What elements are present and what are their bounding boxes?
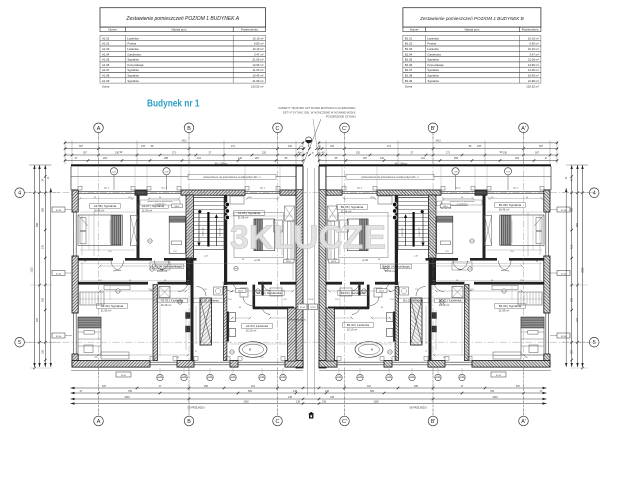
svg-text:B1.01: B1.01 [405,36,413,40]
svg-text:275: 275 [569,245,572,250]
svg-text:120: 120 [330,145,335,148]
svg-text:Komunikacja: Komunikacja [427,63,443,67]
svg-text:11.00 m²: 11.00 m² [142,208,153,212]
svg-text:271: 271 [446,152,451,155]
svg-text:A1.03 | Łazienka: A1.03 | Łazienka [246,324,269,328]
svg-text:10.19 m²: 10.19 m² [252,36,263,40]
svg-text:1.09: 1.09 [112,171,116,173]
svg-text:16.45 m²: 16.45 m² [499,207,510,211]
svg-text:A: A [97,419,101,425]
svg-text:S2.06: S2.06 [561,336,567,338]
svg-text:Np= 0: Np= 0 [357,188,362,190]
svg-text:250: 250 [41,297,44,302]
svg-text:-2.00: -2.00 [208,376,212,378]
svg-text:-2.00: -2.00 [387,376,391,378]
svg-text:958: 958 [575,223,578,228]
svg-text:307: 307 [539,145,544,148]
svg-text:52.01: 52.01 [308,299,314,301]
svg-text:10.10 m²: 10.10 m² [252,47,263,51]
svg-text:Łazienka: Łazienka [127,36,139,40]
svg-text:280: 280 [569,208,572,213]
svg-text:529: 529 [370,390,375,393]
svg-text:Numer: Numer [410,28,418,32]
svg-text:na pobyt ludzi: na pobyt ludzi [457,202,468,205]
svg-text:1332: 1332 [31,267,34,273]
svg-text:21.99 m²: 21.99 m² [101,308,112,312]
svg-text:Sypialnia: Sypialnia [427,58,439,62]
svg-text:255: 255 [454,157,459,160]
svg-text:A': A' [521,419,526,425]
svg-text:120.52 m²: 120.52 m² [526,84,539,88]
svg-text:Łazienka: Łazienka [427,47,439,51]
svg-text:na pobyt ludzi: na pobyt ludzi [155,202,166,205]
svg-text:C: C [276,419,280,425]
svg-text:Nazwa pom.: Nazwa pom. [172,28,188,32]
svg-text:-2.00: -2.00 [182,376,186,378]
svg-text:A1.07: A1.07 [102,68,110,72]
svg-text:10.19 m²: 10.19 m² [161,303,172,307]
svg-text:B1.08: B1.08 [405,74,413,78]
svg-text:307: 307 [535,152,540,155]
svg-text:POSZERZENIE GZYMSU: POSZERZENIE GZYMSU [326,115,356,119]
svg-text:S2.06: S2.06 [56,210,62,212]
svg-text:Sypialnia: Sypialnia [127,58,139,62]
svg-text:A': A' [521,126,526,132]
svg-text:GABARYT TRUSTWO GPT 84 PER EKS: GABARYT TRUSTWO GPT 84 PER EKSTRAKCJI AL… [278,106,356,110]
svg-text:4: 4 [18,191,21,197]
svg-text:10.10 m²: 10.10 m² [528,47,539,51]
svg-text:271: 271 [231,145,236,148]
svg-text:10.10 m²: 10.10 m² [347,327,358,331]
svg-text:-2.00: -2.00 [460,376,464,378]
svg-text:B1.06 | Komunikacja: B1.06 | Komunikacja [382,265,410,269]
svg-text:1.09: 1.09 [454,171,458,173]
svg-text:275: 275 [41,244,44,249]
svg-text:Nazwa pom.: Nazwa pom. [465,28,481,32]
svg-text:S2.05: S2.05 [310,307,316,309]
svg-text:11.00 m²: 11.00 m² [253,68,264,72]
svg-text:263: 263 [515,157,520,160]
svg-text:C': C' [342,126,347,132]
svg-text:958: 958 [36,222,39,227]
svg-text:Łazienka: Łazienka [127,47,139,51]
svg-text:A1.04: A1.04 [102,52,110,56]
svg-text:pomieszczenie nie przeznaczone: pomieszczenie nie przeznaczone na stały … [361,176,419,179]
svg-text:138: 138 [296,401,301,404]
svg-text:Sypialnia: Sypialnia [427,74,439,78]
svg-text:Pralnia: Pralnia [127,42,136,46]
svg-text:220: 220 [356,152,361,155]
svg-text:S2.01: S2.01 [121,375,127,377]
svg-text:271: 271 [387,145,392,148]
svg-text:Powierzchnia: Powierzchnia [522,28,539,32]
svg-text:11.00 m²: 11.00 m² [528,68,539,72]
svg-text:1332: 1332 [580,267,583,273]
svg-text:3KLUCZE: 3KLUCZE [230,219,386,256]
svg-text:246.0: 246.0 [238,291,244,293]
svg-text:A1.08: A1.08 [102,74,110,78]
svg-text:8x25=200: 8x25=200 [220,227,222,237]
svg-text:21.06 m²: 21.06 m² [252,58,263,62]
svg-text:Numer: Numer [108,28,116,32]
svg-text:1342: 1342 [124,396,130,399]
svg-text:B1.09: B1.09 [405,79,413,83]
svg-text:637: 637 [516,385,521,388]
svg-text:3.47 m²: 3.47 m² [529,52,539,56]
svg-text:6.83 m²: 6.83 m² [254,42,264,46]
svg-text:Sypialnia: Sypialnia [427,79,439,83]
svg-text:16.45 m²: 16.45 m² [94,208,105,212]
svg-text:14.66 m²: 14.66 m² [385,269,396,273]
svg-text:Suma: Suma [102,84,110,88]
svg-text:14.66 m²: 14.66 m² [252,63,263,67]
svg-text:B1.01 | Łazienka: B1.01 | Łazienka [439,299,462,303]
svg-text:374: 374 [36,317,39,322]
svg-text:Powierzchnia: Powierzchnia [241,28,258,32]
svg-text:278: 278 [141,145,146,148]
svg-text:Garderoba: Garderoba [427,52,441,56]
svg-text:A1.01: A1.01 [102,36,110,40]
svg-text:138: 138 [325,390,330,393]
svg-text:295: 295 [204,385,209,388]
svg-text:280: 280 [41,207,44,212]
svg-text:DETY P SYTUAC OBL. WYKONCZENIE: DETY P SYTUAC OBL. WYKONCZENIE WYKONANE … [283,110,357,114]
svg-text:138: 138 [330,396,335,399]
svg-text:246.0: 246.0 [379,291,385,293]
svg-text:263: 263 [103,157,108,160]
svg-text:B1.05: B1.05 [405,58,413,62]
svg-text:Komunikacja: Komunikacja [127,63,143,67]
svg-text:Zestawienie pomieszczeń POZIOM: Zestawienie pomieszczeń POZIOM 1 BUDYNEK… [125,16,239,22]
svg-text:Np= 0: Np= 0 [161,188,166,190]
svg-text:S2.06: S2.06 [561,273,567,275]
svg-text:246.0: 246.0 [331,261,337,263]
svg-text:21.99 m²: 21.99 m² [499,308,510,312]
svg-text:180: 180 [569,350,572,355]
svg-text:120: 120 [380,157,385,160]
svg-text:1412: 1412 [435,140,441,143]
svg-text:GÓRA PRZEJAZDU: GÓRA PRZEJAZDU [288,319,307,322]
svg-text:10.19 m²: 10.19 m² [528,36,539,40]
svg-text:14.66 m²: 14.66 m² [157,269,168,273]
svg-text:1.09: 1.09 [506,171,510,173]
svg-text:A1.09: A1.09 [102,79,110,83]
svg-text:-2.00: -2.00 [281,376,285,378]
svg-text:529: 529 [248,390,253,393]
svg-text:-2.00: -2.00 [337,376,341,378]
svg-text:295: 295 [414,385,419,388]
svg-text:1412: 1412 [181,140,187,143]
svg-text:C': C' [342,419,347,425]
svg-text:5: 5 [18,340,21,346]
svg-text:A: A [97,126,101,132]
svg-text:A1.04 | Garderoba: A1.04 | Garderoba [257,291,282,295]
svg-text:B1.02: B1.02 [405,42,413,46]
svg-text:110: 110 [421,157,425,160]
svg-text:+2.42: +2.42 [254,260,261,262]
svg-text:230: 230 [503,152,508,155]
svg-text:B': B' [431,419,436,425]
svg-text:S2.01: S2.01 [496,375,502,377]
svg-text:9x18=162: 9x18=162 [203,227,205,237]
svg-text:B: B [187,419,191,425]
svg-text:B1.08 | Sypialnia: B1.08 | Sypialnia [499,203,522,207]
svg-text:Suma: Suma [405,84,413,88]
svg-text:A1.03: A1.03 [102,47,110,51]
svg-text:220: 220 [262,152,267,155]
svg-text:374: 374 [575,318,578,323]
svg-text:1342: 1342 [492,396,498,399]
svg-text:307: 307 [83,152,88,155]
svg-text:16.45 m²: 16.45 m² [252,74,263,78]
svg-text:B1.02 | Pralnia: B1.02 | Pralnia [403,299,423,303]
svg-text:(8 x 110)cm: (8 x 110)cm [215,163,227,166]
svg-text:138: 138 [288,396,293,399]
svg-text:4: 4 [593,191,596,197]
svg-text:21.06 m²: 21.06 m² [341,209,352,213]
svg-text:1.09: 1.09 [165,171,169,173]
svg-text:760: 760 [128,390,133,393]
svg-text:C: C [276,126,280,132]
svg-text:-2.00: -2.00 [358,376,362,378]
svg-text:Garderoba: Garderoba [127,52,141,56]
svg-text:Pralnia: Pralnia [427,42,436,46]
svg-text:B1.05 | Sypialnia: B1.05 | Sypialnia [341,205,364,209]
svg-text:180: 180 [41,349,44,354]
svg-text:278: 278 [477,145,482,148]
svg-text:A1.02: A1.02 [102,42,110,46]
svg-text:6.83 m²: 6.83 m² [529,42,539,46]
svg-text:S2.05: S2.05 [300,307,306,309]
svg-text:246.0: 246.0 [174,206,180,208]
svg-text:Np= 0: Np= 0 [455,188,460,190]
svg-text:255: 255 [164,157,169,160]
svg-text:637: 637 [102,385,107,388]
svg-text:Sypialnia: Sypialnia [127,79,139,83]
svg-text:1382: 1382 [373,401,379,404]
svg-text:271: 271 [172,152,177,155]
svg-text:307: 307 [79,145,84,148]
svg-text:Zestawienie pomieszczeń POZIOM: Zestawienie pomieszczeń POZIOM 1 BUDYNEK… [419,16,524,21]
svg-text:-2.00: -2.00 [158,376,162,378]
svg-text:-2.00: -2.00 [436,376,440,378]
svg-text:pomieszczenie nie przeznaczone: pomieszczenie nie przeznaczone na stały … [203,176,261,179]
svg-text:A1.05: A1.05 [102,58,110,62]
svg-text:A1.01 | Łazienka: A1.01 | Łazienka [161,299,184,303]
svg-text:138: 138 [322,401,327,404]
svg-text:(8 x 110)cm: (8 x 110)cm [395,163,407,166]
svg-text:Np= 0: Np= 0 [513,188,518,190]
svg-text:S2.06: S2.06 [56,336,62,338]
svg-text:287: 287 [255,157,260,160]
svg-text:-2.00: -2.00 [260,376,264,378]
svg-text:A1.08 | Sypialnia: A1.08 | Sypialnia [94,204,117,208]
svg-text:10.19 m²: 10.19 m² [439,303,450,307]
svg-text:120: 120 [238,157,243,160]
svg-text:Np= 0: Np= 0 [104,188,109,190]
svg-text:B': B' [431,126,436,132]
svg-text:-2.00: -2.00 [231,376,235,378]
svg-text:16.45 m²: 16.45 m² [528,74,539,78]
svg-text:OB PRZEJAZDU: OB PRZEJAZDU [187,407,205,410]
svg-text:B1.06: B1.06 [405,63,413,67]
svg-text:120.52 m²: 120.52 m² [251,84,264,88]
svg-text:3.47 m²: 3.47 m² [254,52,264,56]
svg-text:B: B [187,126,191,132]
svg-text:21.99 m²: 21.99 m² [252,79,263,83]
svg-text:246.0: 246.0 [286,261,292,263]
svg-text:Sypialnia: Sypialnia [427,68,439,72]
svg-text:A1.06 | Komunikacja: A1.06 | Komunikacja [154,265,182,269]
svg-text:A1.09 | Sypialnia: A1.09 | Sypialnia [101,304,124,308]
svg-text:287: 287 [363,157,368,160]
svg-text:110: 110 [251,385,255,388]
svg-text:110: 110 [367,385,371,388]
svg-text:B1.03 | Łazienka: B1.03 | Łazienka [347,323,370,327]
svg-text:B1.03: B1.03 [405,47,413,51]
svg-text:A1.05 | Sypialnia: A1.05 | Sypialnia [238,211,261,215]
svg-text:1382: 1382 [243,401,249,404]
svg-text:250: 250 [569,298,572,303]
svg-text:5: 5 [593,340,596,346]
svg-text:138: 138 [293,390,298,393]
svg-text:A1.06: A1.06 [102,63,110,67]
svg-text:Łazienka: Łazienka [427,36,439,40]
svg-text:S2.06: S2.06 [56,273,62,275]
svg-text:21.06 m²: 21.06 m² [528,58,539,62]
svg-text:A1.02 | Pralnia: A1.02 | Pralnia [199,299,219,303]
svg-text:B1.04: B1.04 [405,52,413,56]
svg-text:120: 120 [288,145,293,148]
svg-text:10.10 m²: 10.10 m² [246,328,257,332]
svg-text:B1.07: B1.07 [405,68,413,72]
svg-text:S2.06: S2.06 [561,210,567,212]
svg-text:-2.00: -2.00 [410,376,414,378]
svg-text:246.0: 246.0 [443,206,449,208]
svg-text:21.99 m²: 21.99 m² [528,79,539,83]
svg-text:+2.42: +2.42 [362,260,369,262]
svg-text:14.66 m²: 14.66 m² [528,63,539,67]
svg-text:B1.09 | Sypialnia: B1.09 | Sypialnia [499,304,522,308]
svg-text:760: 760 [490,390,495,393]
svg-text:Sypialnia: Sypialnia [127,74,139,78]
svg-text:OB PRZEJAZDU: OB PRZEJAZDU [409,407,427,410]
svg-text:110: 110 [197,157,201,160]
svg-text:Sypialnia: Sypialnia [127,68,139,72]
svg-text:Np= 0: Np= 0 [260,188,265,190]
svg-text:Budynek nr 1: Budynek nr 1 [147,98,200,109]
